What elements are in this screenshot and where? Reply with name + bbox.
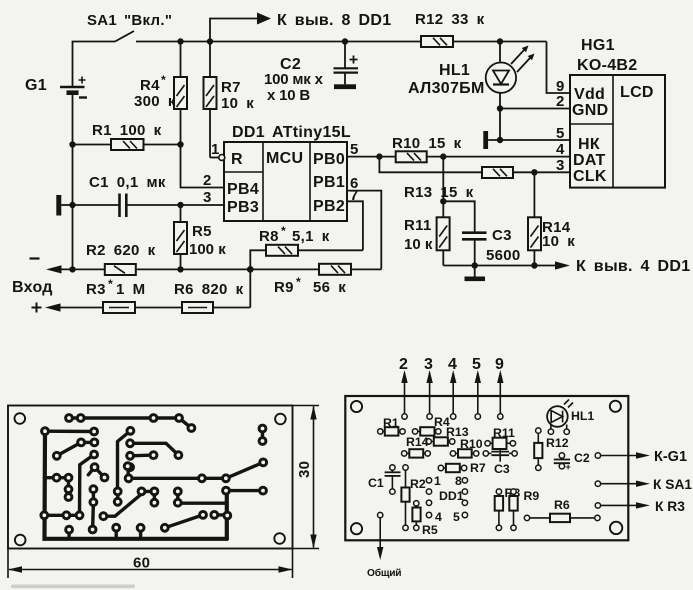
svg-text:К R3: К R3 [655,499,685,514]
svg-text:R12: R12 [546,436,569,450]
trace pair x117 [116,491,119,501]
svg-text:R5: R5 [192,223,212,240]
trace N short [130,453,153,457]
resistor R5 [412,501,437,537]
svg-text:R9: R9 [524,489,540,503]
svg-text:R5: R5 [422,523,438,537]
node R5 bottom [177,266,183,272]
svg-text:GND: GND [572,102,608,119]
svg-text:1: 1 [434,474,441,488]
wire top rail left of switch [73,42,116,87]
hole TL [351,401,362,412]
wire top rail [181,41,422,43]
svg-text:DD1: DD1 [439,489,464,503]
resistor R6 [174,281,250,313]
trace diag BR [165,515,203,528]
placement board outline [345,396,628,540]
capacitor C2 [264,42,358,105]
mounting hole TL [14,413,25,424]
trace fork P9 [95,467,105,477]
node R1-R4 junction [177,141,183,147]
resistor R7 [204,42,255,158]
resistor R6 [524,498,600,522]
svg-text:*: * [108,277,113,291]
wire R8 branch [250,250,266,269]
node C2 top [342,38,348,44]
svg-text:R11: R11 [404,217,432,234]
resistor R4 [412,415,449,436]
trace left bus [45,431,228,539]
input label [12,279,53,313]
trace K down [80,455,95,516]
svg-text:R9: R9 [274,279,294,296]
svg-text:К выв. 4 DD1: К выв. 4 DD1 [576,258,690,275]
dimension 30 [293,406,320,549]
svg-text:HG1: HG1 [581,37,615,54]
LED HL1 placement [547,400,594,435]
input plus rail [45,303,103,311]
resistor R3 [86,277,182,313]
node minus input [69,266,75,272]
svg-text:2: 2 [556,93,565,110]
pin 1 bubble [210,141,225,161]
trace bus stub y478 [45,476,69,479]
node C1 right / PB3 [177,202,183,208]
svg-text:R2 620 к: R2 620 к [86,242,156,259]
hole BL [351,523,362,534]
svg-text:LCD: LCD [620,84,654,101]
resistor R12 [534,428,569,471]
capacitor C2 [554,451,590,472]
trace pair x68 [67,478,70,497]
wire faint scan artifact [11,585,135,589]
svg-text:C3: C3 [494,462,510,476]
chassis bar HK [483,131,570,149]
svg-text:1: 1 [211,141,220,158]
hole TR [610,401,621,412]
svg-text:60: 60 [133,555,150,572]
trace F-G [45,430,94,434]
trace top bus [69,418,191,428]
svg-text:R7: R7 [221,79,241,96]
resistor R9 [274,264,381,296]
resistor R13 [404,167,570,201]
resistor R1 [378,416,406,436]
node PB0 [376,153,382,159]
svg-text:4: 4 [435,510,442,524]
node R4 top [177,38,183,44]
pcb board outline [8,406,293,549]
node HK [497,137,503,143]
svg-text:C1 0,1 мк: C1 0,1 мк [89,174,166,191]
svg-text:R2: R2 [410,477,426,491]
svg-text:5: 5 [350,141,359,158]
hole BR [610,522,622,534]
svg-text:R3: R3 [86,281,106,298]
trace right riser [225,491,229,539]
trace L corner [118,431,131,492]
trace J-H diagonal [57,442,81,455]
svg-text:DAT: DAT [573,152,606,169]
pads group 2 [41,463,158,533]
node LED cathode / GND [497,105,503,111]
terminal common [367,512,401,579]
terminal K R3 [595,499,685,514]
svg-text:3: 3 [556,157,565,174]
input minus rail [30,259,105,274]
svg-text:SA1: SA1 [87,12,117,29]
trace pair x177 [178,491,227,503]
svg-text:100 мк х: 100 мк х [264,71,324,88]
svg-text:К-G1: К-G1 [654,449,687,465]
svg-text:R12 33 к: R12 33 к [415,11,485,28]
capacitor C1 [73,174,225,217]
svg-text:G1: G1 [25,77,47,94]
svg-text:5: 5 [556,125,565,142]
resistor R2 [86,242,319,275]
svg-text:4: 4 [448,356,457,373]
LED HL1 [408,42,535,141]
pin arrow 3 [424,356,433,419]
svg-text:АЛ307БМ: АЛ307БМ [408,80,485,97]
battery G1 [25,77,87,98]
svg-text:R10 15 к: R10 15 к [392,135,462,152]
wire R8 to pin7 [347,201,363,250]
svg-text:Вход: Вход [12,279,53,296]
svg-text:KO-4B2: KO-4B2 [577,57,637,74]
svg-text:х 10 В: х 10 В [267,87,310,104]
wire PB0 pin5 [347,156,396,158]
svg-text:10 к: 10 к [542,233,575,250]
wire R10 node down [442,157,444,202]
node R10 right [440,153,446,159]
wire R9 to pin6 [347,191,381,270]
svg-text:R6 820 к: R6 820 к [174,281,244,298]
node R11 top [440,198,446,204]
node R14 bottom [531,262,537,268]
wire to GND pin2 [500,108,570,110]
svg-text:+: + [566,462,571,472]
svg-text:56 к: 56 к [313,279,346,296]
resistor R13 [426,425,469,446]
switch SA1 [87,12,181,42]
svg-text:*: * [296,275,301,289]
svg-text:300 к: 300 к [134,93,176,110]
svg-text:5600: 5600 [486,247,521,264]
svg-text:MCU: MCU [266,150,303,167]
svg-text:R14: R14 [406,435,429,449]
svg-text:R10: R10 [460,437,483,451]
svg-text:100 к: 100 к [189,241,226,258]
trace stem x116 [114,528,117,539]
wire battery down [72,93,74,270]
trace M elbow [130,443,178,455]
svg-text:HL1: HL1 [571,409,594,423]
svg-text:DD1 ATtiny15L: DD1 ATtiny15L [232,124,351,141]
trace H-I [81,441,94,444]
trace y490 right [226,489,263,492]
node R7 top [207,38,213,44]
wire PB0 to R13 [379,157,482,173]
svg-text:НК: НК [578,136,600,153]
resistor R14 [528,172,575,265]
trace y478 long [129,462,264,478]
resistor R8 [259,224,363,256]
svg-text:*: * [281,224,286,238]
svg-text:Vdd: Vdd [574,86,605,103]
trace diag mid [103,491,141,516]
svg-text:5: 5 [453,510,460,524]
trace stem x69 [67,530,70,539]
svg-text:10 к: 10 к [221,95,254,112]
resistor R12 [415,11,547,47]
svg-text:R: R [231,151,243,168]
svg-text:R1 100 к: R1 100 к [92,122,162,139]
resistor R7 [438,461,486,475]
mounting hole BL [15,535,26,546]
resistor R4 [134,42,187,145]
svg-text:Общий: Общий [367,567,401,579]
trace pair x141-154 [142,491,155,502]
resistor R10 [450,437,482,458]
wire to C3 [443,201,474,232]
resistor R1 [73,122,181,150]
IC DD1 ATtiny15L MCU [224,124,351,221]
ground [465,266,486,282]
capacitor C3 [462,227,521,266]
svg-text:5: 5 [472,356,481,373]
svg-text:PB1: PB1 [313,174,345,191]
svg-text:PB3: PB3 [227,199,259,216]
trace pair x262 [261,429,264,442]
LCD module HG1 [570,37,665,188]
chassis bar at C1 [56,195,72,216]
mounting hole TR [275,414,286,425]
trace pair x93 [91,489,95,529]
trace fork P9 left leg [88,467,94,475]
DD1 pin grid [426,474,467,524]
terminal K SA1 [595,477,692,492]
resistor R14 [402,435,431,458]
resistor R11 [404,201,450,265]
pin arrow 5 [472,356,481,419]
svg-text:HL1: HL1 [439,62,470,79]
svg-text:2: 2 [203,172,212,189]
wire Vdd riser [547,42,571,94]
svg-text:10 к: 10 к [404,236,433,253]
svg-text:PB0: PB0 [313,151,345,168]
svg-text:R1: R1 [383,416,399,430]
svg-text:R13 15 к: R13 15 к [404,184,474,201]
svg-text:4: 4 [556,141,565,158]
resistor R9 [509,489,539,531]
resistor R5 [174,205,226,269]
resistor R10 [392,135,570,162]
pads group 1 [42,415,195,531]
dimension 60 [8,549,293,579]
capacitor C1 [368,465,401,495]
svg-text:*: * [161,73,166,87]
svg-text:3: 3 [424,356,433,373]
svg-text:"Вкл.": "Вкл." [124,12,172,29]
svg-text:К выв. 8 DD1: К выв. 8 DD1 [277,12,391,29]
node LED top [497,38,503,44]
wire R6 riser [249,269,251,307]
resistor R11 [485,426,516,449]
pin arrow 9 [495,356,504,419]
svg-text:C2: C2 [574,451,590,465]
node R1 left [69,141,75,147]
svg-text:30: 30 [296,461,313,478]
svg-text:R11: R11 [493,426,515,440]
svg-text:9: 9 [495,356,504,373]
trace stub y514 [214,513,227,516]
svg-text:5,1 к: 5,1 к [292,228,330,245]
svg-text:PB4: PB4 [227,181,259,198]
svg-text:R7: R7 [470,461,486,475]
svg-text:3: 3 [203,189,212,206]
svg-text:R8: R8 [259,228,279,245]
svg-text:C3: C3 [492,227,512,244]
svg-text:2: 2 [399,356,408,373]
pads group 3 [137,425,266,531]
terminal K-G1 [595,449,687,465]
svg-text:8: 8 [455,474,462,488]
svg-text:C1: C1 [368,476,384,490]
trace bus stub y515 [45,514,80,517]
svg-text:R4: R4 [140,77,160,94]
svg-text:PB2: PB2 [313,198,345,215]
pin arrow 2 [399,356,408,419]
trace stub x127 [126,466,130,478]
mounting hole BR [274,533,285,544]
svg-text:К SA1: К SA1 [653,477,692,492]
node R13-R14 [531,169,537,175]
svg-text:7: 7 [350,187,359,204]
svg-text:1 М: 1 М [116,281,145,298]
svg-text:R6: R6 [554,498,570,512]
trace stem x140 [139,528,142,539]
resistor R2 [401,465,425,531]
pin arrow 4 [448,356,457,419]
resistor R8 [495,486,521,531]
node R6/R8 junction [247,266,254,273]
svg-text:CLK: CLK [573,168,607,185]
wire junction to pin2 [181,145,225,188]
node C1 left [69,202,75,208]
bottom rail to pin4 arrow [443,258,690,275]
capacitor C3 [483,449,517,476]
wire to pin 8 arrow [210,12,391,42]
node C3 bottom [472,262,478,268]
